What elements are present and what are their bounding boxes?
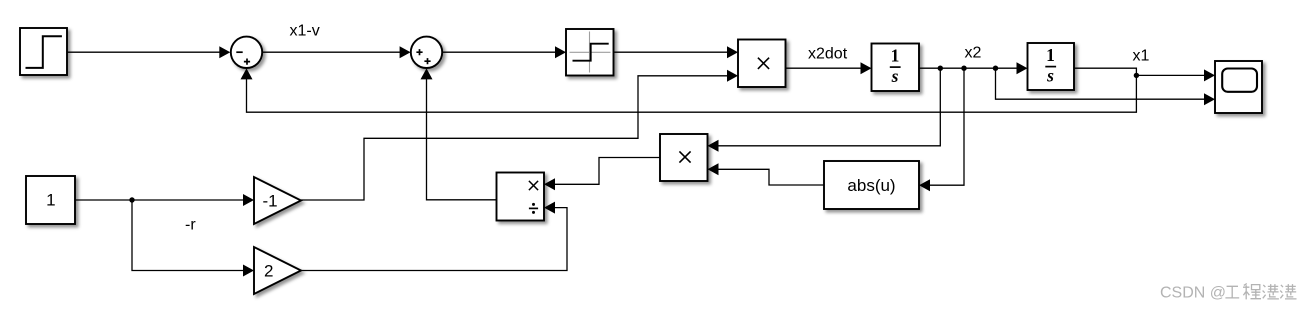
svg-text:2: 2 (264, 262, 273, 281)
wire: junction down to gain2 (132, 200, 246, 271)
sum block S2 (411, 37, 442, 68)
scope block (1215, 61, 1262, 113)
sum block S1 (231, 37, 262, 68)
svg-text:x2: x2 (965, 45, 982, 62)
step block (20, 28, 67, 75)
arrowhead into sum1 left (219, 46, 230, 58)
wire: gain2 out to xdiv input2 (301, 208, 567, 271)
svg-text:x2dot: x2dot (808, 46, 848, 63)
svg-text:s: s (891, 66, 899, 86)
watermark CJK glyphs (1225, 284, 1296, 300)
junction dot C (x2 to scope) (993, 66, 998, 71)
wire: x1 feedback to sum1 bottom (247, 75, 1137, 112)
integrator block 2 (1/s) (1028, 43, 1075, 90)
integrator block 1 (1/s) (872, 44, 920, 92)
wire: sum1 to sum2, label x1-v (262, 51, 402, 53)
svg-text:x1: x1 (1133, 48, 1150, 65)
wire: constant to gain1 (75, 199, 246, 201)
abs(u) block (824, 161, 919, 209)
wire: step to sum1 (67, 51, 222, 53)
junction dot x1 (1134, 73, 1139, 78)
wire: abs out to P2 input2 (716, 169, 824, 185)
wire: integrator2 out to scope input1, node x1 (1074, 68, 1207, 75)
wire: P2 out to xdiv input1 (553, 158, 661, 185)
svg-text:s: s (1046, 66, 1054, 86)
svg-text:abs(u): abs(u) (847, 176, 895, 195)
divide block (x over dots) (497, 173, 545, 221)
svg-text:x1-v: x1-v (290, 22, 320, 39)
wire: P1 out to integrator1, node x2dot (786, 67, 864, 69)
wire: x2 node C down to scope input2 (996, 68, 1207, 99)
product block P2 (660, 134, 708, 181)
wire: sum2 to relay (442, 51, 557, 53)
product block P1 (738, 40, 786, 88)
gain block -1 (254, 177, 301, 224)
constant block 1 (26, 176, 75, 224)
svg-text:1: 1 (1046, 45, 1055, 65)
svg-text:1: 1 (891, 46, 900, 66)
junction dot A (x2 to P2) (938, 66, 943, 71)
wire: xdiv out up to sum2 bottom (427, 78, 497, 200)
svg-text:1: 1 (46, 190, 55, 209)
wire: x2 node A down-left to P2 input1 (716, 68, 940, 146)
wire: gain1 out to P1 input2 (long path) (301, 76, 730, 200)
relay block (566, 29, 614, 76)
svg-text:CSDN @: CSDN @ (1160, 284, 1226, 301)
wire: x2 node B down to abs input (928, 68, 965, 185)
junction dot under constant (129, 197, 134, 202)
junction dot B (x2 to abs) (961, 66, 966, 71)
gain block 2 (254, 247, 301, 294)
svg-text:-1: -1 (263, 192, 278, 211)
svg-text:-r: -r (185, 217, 196, 234)
wire: relay to product P1 input1 (614, 51, 730, 53)
wire: integrator1 out to integrator2 (919, 67, 1019, 69)
